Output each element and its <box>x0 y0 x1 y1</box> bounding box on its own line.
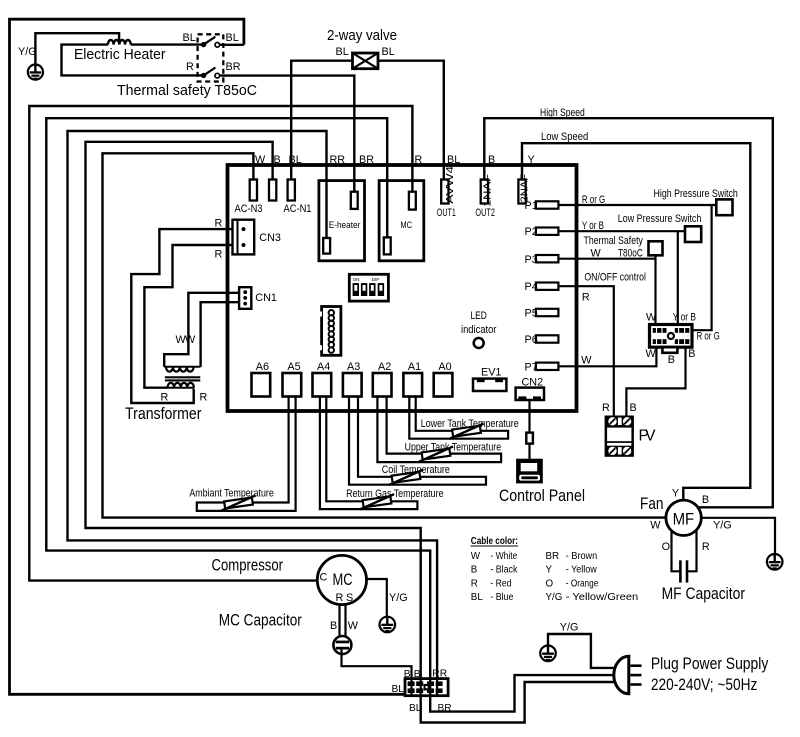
svg-text:BL: BL <box>471 592 484 603</box>
wire R fan to MF capacitor <box>687 531 697 571</box>
wire Y/G plug ground <box>548 622 616 668</box>
svg-text:- Black: - Black <box>490 565 517 576</box>
thermal safety T80oC switch <box>584 235 663 260</box>
svg-text:Y/G: Y/G <box>560 622 579 634</box>
svg-text:O: O <box>546 578 554 589</box>
svg-text:- Yellow: - Yellow <box>566 565 598 576</box>
svg-text:A2: A2 <box>378 361 391 373</box>
svg-text:Y: Y <box>528 154 535 166</box>
wire RR (E-heater lower pin to terminal block R) <box>68 131 438 679</box>
svg-text:W: W <box>591 248 602 260</box>
connector J1 8-pin <box>320 307 341 356</box>
2-way valve <box>327 28 397 69</box>
E-heater relay box <box>319 181 365 261</box>
wire B MC capacitor to terminal block <box>342 650 412 679</box>
svg-text:BL: BL <box>226 32 239 44</box>
pin labels on top bus <box>255 154 535 166</box>
sensor upper tank temperature <box>377 397 501 463</box>
pin P4 <box>525 281 559 293</box>
svg-text:BR: BR <box>546 551 560 562</box>
svg-text:B: B <box>488 154 495 166</box>
pin P3 <box>525 254 559 266</box>
svg-text:CN1: CN1 <box>255 292 277 304</box>
wire R (MC R pin / compressor C loop) <box>29 106 412 581</box>
svg-text:OUT1: OUT1 <box>437 207 456 219</box>
svg-text:C: C <box>320 572 328 584</box>
svg-text:W: W <box>646 312 657 324</box>
svg-text:BL: BL <box>336 46 349 58</box>
svg-text:P3: P3 <box>525 254 538 266</box>
sensor ambiant temperature <box>189 397 295 511</box>
control panel <box>499 459 585 505</box>
svg-text:Thermal safety T85oC: Thermal safety T85oC <box>117 82 257 99</box>
pin BL (AC-N1) <box>288 180 295 201</box>
connector EV1 <box>473 367 506 392</box>
svg-text:P4: P4 <box>525 281 538 293</box>
svg-text:P7: P7 <box>525 361 538 373</box>
svg-text:BL: BL <box>183 32 196 44</box>
sensor coil temperature <box>349 397 486 485</box>
svg-text:Compressor: Compressor <box>212 557 284 575</box>
low pressure switch <box>618 213 702 242</box>
pin BR inside E-heater <box>351 192 358 209</box>
svg-text:A4: A4 <box>317 361 330 373</box>
svg-text:Plug Power Supply: Plug Power Supply <box>651 655 769 673</box>
high pressure switch <box>654 188 738 215</box>
svg-text:R: R <box>215 249 223 261</box>
wire BL terminal block to plug <box>421 682 616 723</box>
DIP switch <box>349 274 388 301</box>
ferrite bead on control panel wire <box>526 433 533 444</box>
wire R CN3 lower to transformer secondary left <box>144 245 232 388</box>
svg-text:AC-N1: AC-N1 <box>284 203 312 215</box>
svg-text:B: B <box>630 402 637 414</box>
pin OUT2 <box>475 174 495 219</box>
svg-text:Y/G: Y/G <box>713 520 732 532</box>
svg-text:Electric Heater: Electric Heater <box>74 46 166 63</box>
svg-text:BL: BL <box>392 684 405 695</box>
svg-text:R: R <box>186 61 194 73</box>
wire Y/G fan to ground <box>701 518 775 554</box>
pin R inside MC <box>409 192 416 210</box>
label AC-N1 <box>284 203 312 215</box>
svg-text:Transformer: Transformer <box>125 405 202 423</box>
svg-text:R: R <box>200 392 208 404</box>
svg-text:E-heater: E-heater <box>329 220 361 230</box>
wire R CN3 upper to transformer secondary right <box>131 218 232 404</box>
terminal PV <box>602 402 656 457</box>
svg-text:BR: BR <box>359 154 374 166</box>
MC relay box <box>379 181 424 261</box>
svg-text:P2: P2 <box>525 226 538 238</box>
wire B (AC-N3 B pin to terminal block B) <box>86 142 421 679</box>
svg-text:A1: A1 <box>408 361 421 373</box>
svg-text:- Orange: - Orange <box>566 578 599 589</box>
svg-text:BL: BL <box>382 46 395 58</box>
ground Y/G top-left <box>18 33 119 79</box>
pin inside MC lower-left <box>384 237 391 254</box>
svg-text:DIP: DIP <box>372 277 380 282</box>
svg-text:Y/G: Y/G <box>18 46 37 58</box>
LED indicator <box>461 310 497 348</box>
pin B (AC-N3) <box>269 180 276 201</box>
svg-text:AVW4: AVW4 <box>444 166 456 204</box>
connector 4-pin fan plug <box>646 312 720 367</box>
wire R ON/OFF control (P4 to PV) <box>558 272 646 416</box>
svg-text:1NAF: 1NAF <box>482 174 494 207</box>
electric heater <box>62 40 204 75</box>
svg-text:R: R <box>415 154 423 166</box>
wire CN2 to control panel <box>528 400 530 459</box>
pin P6 <box>525 334 559 346</box>
ground Y/G near compressor <box>380 617 396 633</box>
ground Y/G right <box>767 554 783 570</box>
svg-text:AC-N3: AC-N3 <box>235 203 263 215</box>
svg-text:Low Speed: Low Speed <box>541 131 588 143</box>
wire B (connector to PV) <box>626 347 685 415</box>
wire R or G (P1 to high pressure switch) <box>558 194 716 330</box>
label AC-N3 <box>235 203 263 215</box>
pin RR inside E-heater <box>323 238 330 254</box>
svg-text:R: R <box>471 578 478 589</box>
svg-text:- Red: - Red <box>490 578 511 589</box>
svg-text:A3: A3 <box>347 361 360 373</box>
svg-text:W: W <box>185 334 196 346</box>
svg-text:High Speed: High Speed <box>540 107 585 119</box>
svg-text:R or G: R or G <box>582 194 605 206</box>
svg-text:EV1: EV1 <box>481 367 501 379</box>
svg-text:P5: P5 <box>525 308 538 320</box>
thermal safety T85oC switch <box>117 32 257 99</box>
svg-text:B: B <box>274 154 281 166</box>
wires B W compressor to MC capacitor <box>330 604 359 641</box>
svg-text:A6: A6 <box>256 361 269 373</box>
svg-text:Y or B: Y or B <box>582 220 604 232</box>
transformer <box>125 367 208 423</box>
svg-text:ON/OFF control: ON/OFF control <box>584 272 646 284</box>
svg-text:2NAF: 2NAF <box>519 174 531 203</box>
svg-text:MC: MC <box>400 220 412 230</box>
wire BL valve right to OUT1 pin <box>378 61 444 180</box>
wire BL outer border path (switch BL to terminal block) <box>10 19 406 694</box>
svg-text:W: W <box>646 348 657 360</box>
svg-text:PV: PV <box>639 428 657 445</box>
pin P5 <box>525 308 559 320</box>
svg-text:MF Capacitor: MF Capacitor <box>662 585 746 603</box>
svg-text:W: W <box>650 520 661 532</box>
svg-text:Ambiant Temperature: Ambiant Temperature <box>189 487 273 499</box>
svg-text:W: W <box>471 551 481 562</box>
wire BL valve left to AC-N1 pin <box>291 61 352 180</box>
pin P2 <box>525 226 559 238</box>
wire BR (switch to E-heater pin) <box>220 76 355 192</box>
svg-text:Y: Y <box>672 488 679 500</box>
wire B high speed (OUT2 to fan B) <box>484 107 773 507</box>
connector CN1 <box>239 287 277 309</box>
wire W (P7 to connector) <box>558 347 656 366</box>
capacitor MF <box>662 560 746 603</box>
svg-text:R: R <box>336 592 344 604</box>
connector CN3 <box>233 220 281 255</box>
wire BR terminal block to plug <box>430 675 616 712</box>
svg-text:S: S <box>346 592 353 604</box>
svg-text:R: R <box>215 218 223 230</box>
svg-text:R: R <box>582 292 590 304</box>
svg-text:Fan: Fan <box>640 495 664 513</box>
svg-text:B: B <box>668 354 675 366</box>
svg-text:R: R <box>602 402 610 414</box>
svg-text:OUT2: OUT2 <box>475 207 495 219</box>
fan motor MF <box>640 488 732 554</box>
legend cable color <box>471 536 639 603</box>
svg-text:Return Gas Temperature: Return Gas Temperature <box>346 488 443 500</box>
svg-text:B: B <box>330 620 337 632</box>
svg-text:BL: BL <box>447 154 460 166</box>
compressor MC <box>212 555 367 604</box>
pin OUT1 <box>437 166 456 219</box>
wire Y low speed (FAN2 to fan Y) <box>522 131 750 500</box>
plug power supply <box>614 655 769 694</box>
svg-text:- Yellow/Green: - Yellow/Green <box>566 592 638 603</box>
wire W (AC-N3 W pin to fan) <box>103 153 667 517</box>
wire O fan to MF capacitor <box>672 531 681 572</box>
svg-text:MC: MC <box>333 571 353 589</box>
svg-text:RR: RR <box>330 154 346 166</box>
svg-text:BR: BR <box>226 61 241 73</box>
svg-text:CN3: CN3 <box>259 232 281 244</box>
svg-text:Cable color:: Cable color: <box>471 536 518 547</box>
svg-text:Y or B: Y or B <box>673 312 696 324</box>
svg-text:Y: Y <box>546 565 553 576</box>
wire W (P3 to thermal safety T80oC and connector) <box>558 248 655 325</box>
svg-text:P6: P6 <box>525 334 538 346</box>
svg-text:Y/G: Y/G <box>546 592 563 603</box>
svg-text:Low Pressure Switch: Low Pressure Switch <box>618 213 702 225</box>
sensor return gas temperature <box>320 397 444 510</box>
svg-text:W: W <box>255 154 266 166</box>
terminal block TB <box>392 669 452 715</box>
svg-text:B: B <box>688 348 695 360</box>
svg-text:W: W <box>348 620 359 632</box>
svg-text:LED: LED <box>471 310 488 322</box>
svg-text:A5: A5 <box>287 361 300 373</box>
pin P1 <box>525 200 559 212</box>
svg-text:W: W <box>581 355 592 367</box>
wire Y or B (P2 to low pressure switch and connector) <box>558 220 685 325</box>
svg-text:R or G: R or G <box>697 331 720 343</box>
wire W CN1 lower to transformer primary right <box>176 302 240 367</box>
svg-text:R: R <box>161 392 169 404</box>
svg-text:B: B <box>471 565 478 576</box>
svg-text:- Brown: - Brown <box>566 551 597 562</box>
svg-text:MF: MF <box>673 510 695 529</box>
pin P7 <box>525 361 559 373</box>
wire W CN1 upper to transformer primary left <box>164 293 239 367</box>
ground Y/G near plug <box>540 646 556 662</box>
svg-text:ON: ON <box>353 277 360 282</box>
svg-text:B: B <box>702 494 709 506</box>
svg-text:- White: - White <box>490 551 517 562</box>
svg-text:Thermal Safety: Thermal Safety <box>584 235 644 247</box>
svg-text:MC Capacitor: MC Capacitor <box>219 612 302 630</box>
svg-text:T80oC: T80oC <box>618 248 643 260</box>
svg-text:Y/G: Y/G <box>389 592 408 604</box>
svg-text:A0: A0 <box>438 361 451 373</box>
svg-text:2-way valve: 2-way valve <box>327 28 397 44</box>
svg-text:P1: P1 <box>525 200 538 212</box>
pin FAN2 <box>518 174 530 204</box>
sensor lower tank temperature <box>409 397 518 439</box>
wire R (MC lower pin to terminal block R) <box>46 118 430 678</box>
svg-text:BL: BL <box>289 154 302 166</box>
svg-text:O: O <box>662 541 670 553</box>
svg-text:- Blue: - Blue <box>490 592 513 603</box>
svg-text:indicator: indicator <box>461 324 497 336</box>
svg-text:R: R <box>702 541 710 553</box>
svg-text:Control Panel: Control Panel <box>499 487 585 505</box>
terminals A6-A0 <box>252 361 453 397</box>
main PCB board <box>228 165 577 411</box>
wire Y/G compressor to ground <box>367 579 408 617</box>
pin W (AC-N3) <box>250 180 257 201</box>
connector CN2 <box>516 377 544 401</box>
capacitor MC <box>219 612 352 655</box>
svg-text:220-240V; ~50Hz: 220-240V; ~50Hz <box>651 676 758 694</box>
